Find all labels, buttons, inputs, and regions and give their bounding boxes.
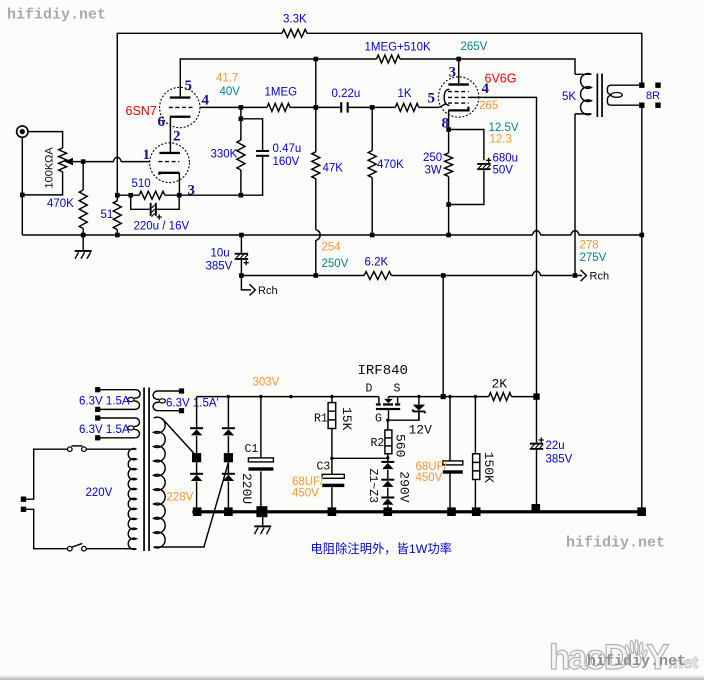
diode Z3 [381,497,394,499]
svg-text:2K: 2K [492,376,508,391]
bottom edge shade [0,675,704,680]
ground symbol C1 [262,513,264,525]
transformer PT primary [128,449,136,550]
diode Z2 [381,479,394,481]
potentiometer 100K [59,148,67,172]
svg-text:450V: 450V [292,488,319,500]
wire C1 leads [260,397,262,512]
svg-text:265V: 265V [461,41,488,53]
svg-text:6: 6 [158,114,166,130]
resistor 1MEG+510K [377,55,401,63]
svg-text:250: 250 [423,152,442,164]
node pot return [20,193,25,198]
svg-text:560: 560 [392,434,407,457]
node 10u bottom [239,273,244,278]
resistor 2K [489,393,512,401]
node 1MEG right [314,105,319,110]
wire 22u leads [536,397,538,512]
node 47K to B+ row [314,273,319,278]
svg-text:303V: 303V [253,376,280,388]
svg-text:5: 5 [428,91,436,107]
diode D4 [222,473,235,475]
svg-text:hifidiy.net: hifidiy.net [7,6,106,23]
svg-text:385V: 385V [206,261,233,273]
dot rail R1 [330,395,333,398]
node 330K top [239,117,244,122]
wire 470K input bottom [82,229,84,236]
dot node A right [386,456,389,459]
wire mains bottom [26,509,136,548]
svg-text:5K: 5K [562,91,576,103]
node pin3 [177,193,182,198]
node B+ feed [441,273,446,278]
terminal hw1 a [95,387,100,392]
node gnd 51 [115,233,120,238]
svg-text:330K: 330K [211,149,238,161]
arrow Rch right [575,275,582,277]
svg-text:150K: 150K [481,452,496,483]
svg-text:G: G [375,412,382,425]
resistor 250 3W [445,153,453,177]
node 330K bottom [239,193,244,198]
pot wiper arrow [64,158,73,166]
resistor R2 box [385,430,392,454]
svg-text:220U: 220U [239,473,254,504]
svg-text:68UF/: 68UF/ [292,476,324,488]
transformer PT HV winding [154,417,166,548]
dot rail C1 [259,395,262,398]
bus node C1 [256,506,267,517]
terminal hw1 b [95,407,100,412]
resistor R1 box [328,403,336,429]
transformer PT core [143,388,145,552]
wire pot bottom [22,137,62,235]
node cathode bottom [446,202,451,207]
wire C3 leads [331,458,333,511]
resistor 3.3K [282,29,307,37]
node gnd sec [640,233,645,238]
svg-text:680u: 680u [493,153,519,165]
dot gate node [386,419,389,422]
wire mains top [26,449,136,499]
diode D3 [222,427,235,429]
tube 6V6 g2 dashes [448,91,469,93]
bus node col2 [224,507,233,516]
node pin8 [446,127,451,132]
capacitor C1 220U [248,458,273,462]
dot node A left [330,457,333,460]
wire 470K grid leak [371,107,373,235]
wire 6V6 g1 connect [439,104,447,108]
svg-text:R2: R2 [371,437,385,450]
wire gate to zener [388,412,419,420]
resistor 1MEG [267,103,290,111]
tube 6V6 plate [448,83,468,85]
plug pin top [21,497,26,502]
resistor 150K box [473,454,480,480]
bus node Z3 [384,507,393,516]
tube 6V6 grid frame [444,89,449,105]
wire 47K vertical [315,59,317,230]
terminal hw2 a [95,415,100,420]
svg-text:22u: 22u [546,440,565,452]
svg-text:12.5V: 12.5V [489,122,519,134]
dot rail col2 [227,395,230,398]
svg-text:12V: 12V [409,422,433,437]
svg-text:0.47u: 0.47u [273,143,302,155]
svg-text:470K: 470K [47,198,74,210]
node wiper [81,159,86,164]
svg-text:470K: 470K [377,159,404,171]
diode zener 12V [413,405,425,411]
capacitor 680u/50V [477,163,490,165]
svg-text:3: 3 [449,64,457,80]
capacitor 22u/385V [530,443,543,445]
svg-text:6SN7: 6SN7 [126,104,157,118]
svg-text:1K: 1K [398,88,412,100]
node 220u left [128,193,133,198]
node gnd 250 [446,233,451,238]
svg-text:228V: 228V [167,492,194,504]
wire rect col1 [196,397,198,512]
wire 220u loop [131,195,180,209]
node grid junction [239,105,244,110]
svg-text:4: 4 [202,92,210,108]
svg-text:290V: 290V [397,471,412,502]
svg-text:C1: C1 [245,443,259,456]
diode D2 [190,473,203,475]
svg-text:0.22u: 0.22u [332,88,361,100]
wire node A row [332,457,388,459]
svg-text:12.3: 12.3 [490,134,512,146]
resistor 470K input [79,190,87,229]
wire feedback top from 3.3K line [117,33,642,195]
wire 6V6 plate lead [458,59,460,83]
wire 150K leads [474,397,476,512]
node rect AC2 [224,453,233,462]
input jack [17,126,28,137]
wire cathode row [117,194,241,196]
svg-text:C3: C3 [317,461,331,474]
node gnd 10u [239,233,244,238]
tube V1a envelope [150,143,190,183]
svg-text:385V: 385V [546,454,573,466]
svg-text:1MEG+510K: 1MEG+510K [365,42,431,54]
resistor 510 [139,191,165,199]
svg-text:50V: 50V [493,165,514,177]
tube V1b plate [170,96,191,98]
node rail B+ feed [441,394,446,399]
capacitor 220u/16V [150,203,152,216]
svg-text:51: 51 [101,209,114,221]
terminal hw3 a [179,388,184,393]
svg-text:6.3V 1.5A: 6.3V 1.5A [79,395,130,407]
transformer OPT secondary [607,85,641,94]
node 0.22u right [370,105,375,110]
tube 6V6 g1 dashes [448,96,469,98]
svg-text:510: 510 [132,178,151,190]
resistor 330K [237,140,245,170]
wire PSU rail [197,396,537,398]
svg-text:2: 2 [173,128,181,144]
diode Z1 [381,461,394,463]
svg-text:hifidiy.net: hifidiy.net [587,653,686,670]
svg-text:3.3K: 3.3K [283,14,307,26]
svg-text:hifidiy.net: hifidiy.net [566,535,665,552]
tube V1a grid [158,161,179,163]
wire 47K hop over ground row [316,230,320,276]
wire R1 leads [331,397,333,459]
tube 6V6 envelope [438,77,478,117]
svg-text:R1: R1 [314,412,328,425]
svg-text:10u: 10u [211,248,230,260]
transformer OPT core [597,74,599,118]
node gnd 470K [370,233,375,238]
wire V1a cathode lead [178,173,180,195]
wire signal ground row [22,231,642,235]
dot rail 150K [474,395,477,398]
svg-text:电阻除注明外，皆1W功率: 电阻除注明外，皆1W功率 [311,541,452,556]
wire 6V6 cathode lead [448,110,450,129]
ground symbol input [82,235,84,250]
svg-text:15K: 15K [339,407,354,431]
svg-text:220u / 16V: 220u / 16V [134,221,190,233]
svg-text:450V: 450V [416,472,443,484]
wire grid coupling row [200,106,439,108]
svg-text:6.3V 1.5A': 6.3V 1.5A' [166,398,219,410]
svg-text:6.3V 1.5A: 6.3V 1.5A [79,424,130,436]
transistor Q1 IRF840 [379,397,398,404]
wire zener chain [387,458,389,512]
capacitor 0.47u [256,150,269,152]
node rect AC1 [192,453,201,462]
svg-text:Rch: Rch [590,271,610,283]
svg-text:220V: 220V [86,487,113,499]
transformer OPT primary [575,73,591,75]
bus node right [637,507,646,516]
tube 6V6 g3 dashes [448,102,469,104]
svg-text:Rch: Rch [258,285,278,297]
wire HV top diagonal [162,418,197,456]
svg-text:8R: 8R [646,90,660,102]
terminal 8R+ a [639,83,644,88]
plug pin bottom [21,507,26,512]
resistor 1K [395,103,419,111]
svg-text:160V: 160V [273,156,300,168]
node OPT bottom [573,273,578,278]
wire C4 leads [449,397,451,512]
node at 47K top [314,57,319,62]
tube 6V6 cathode [448,107,468,111]
switch top [68,447,73,452]
svg-text:Z1~Z3: Z1~Z3 [366,469,379,504]
node gnd jack [81,233,86,238]
svg-text:3W: 3W [425,164,442,176]
svg-text:5: 5 [185,78,193,94]
bus node col1 [193,507,202,516]
dot rail x291 [289,395,292,398]
tube V1a cathode [159,173,179,175]
transformer heater winding 1 [100,389,136,391]
svg-text:IRF840: IRF840 [358,363,408,379]
wire HV bottom diagonal [154,463,229,547]
capacitor 10u/385V [240,235,242,276]
wire wiper row with hop [71,157,150,161]
wire B+ 275V row [241,271,575,275]
bus node 150K [472,507,481,516]
wire 330K cap branch [241,107,263,195]
ground bus [192,510,645,513]
svg-text:278: 278 [580,240,599,252]
svg-text:D: D [366,382,373,395]
svg-text:265: 265 [479,100,498,112]
wire jack to pot [28,132,63,149]
bus node C3 [328,507,337,516]
wire V1b cathode to V2 plate [169,118,171,152]
svg-text:S: S [394,382,401,395]
svg-text:1MEG: 1MEG [265,86,298,98]
wire B+ feed vertical [442,276,444,397]
capacitor C3 68UF [322,474,344,478]
svg-text:275V: 275V [580,252,607,264]
diode D1 [190,427,203,429]
arrow Rch left [241,276,251,290]
wire R2 leads [387,420,389,458]
resistor 51 [113,201,121,230]
tube V1b envelope [160,87,200,127]
wire rect col2 [227,397,229,512]
tube V1b cathode [170,116,191,118]
resistor 470K grid leak [368,151,376,178]
transformer heater winding 2 [100,417,136,419]
terminal 8R- a [639,103,644,108]
tube V1a plate [159,152,180,154]
svg-text:250V: 250V [322,258,349,270]
node rail screen [533,393,539,399]
terminal hw2 b [95,435,100,440]
dot zener top [417,395,420,398]
wire B+ 265V row [180,59,575,97]
node 6V6 plate [456,57,461,62]
wire cathode net [449,130,484,236]
bus node C4 [447,507,456,516]
wire gate lead [388,410,390,420]
resistor 47K [312,152,320,179]
dot rail C4 [448,395,451,398]
node feedback cathode [115,193,120,198]
wire 6V6 screen to rail [469,97,537,396]
bus node 22u [532,504,541,513]
switch bottom [68,546,73,551]
transformer heater winding 3 [158,390,182,392]
terminal 8R- b [655,103,660,108]
svg-text:47K: 47K [323,163,344,175]
tube V1b grid [169,106,193,108]
svg-text:41.7: 41.7 [216,72,238,84]
capacitor 0.22u [340,102,342,112]
terminal 8R+ b [655,83,660,88]
svg-text:40V: 40V [220,86,241,98]
wire 470K input top [82,162,84,190]
wire 51 resistor leads [116,195,118,235]
svg-text:1: 1 [143,147,151,163]
terminal hw3 b [179,408,184,413]
resistor 6.2K [364,272,391,280]
svg-text:100KΩA: 100KΩA [44,147,56,189]
svg-text:6V6G: 6V6G [485,71,517,85]
svg-text:6.2K: 6.2K [365,256,389,268]
capacitor C4 68UF [443,461,463,465]
svg-text:254: 254 [322,242,342,254]
wire secondary ground drop [641,105,643,512]
